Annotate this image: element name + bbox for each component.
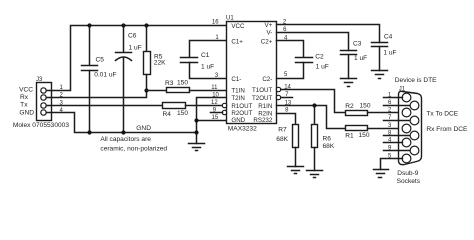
svg-text:Molex 0705530003: Molex 0705530003: [13, 122, 69, 129]
bubble R2OUT pin9: [222, 110, 226, 114]
svg-text:Sockets: Sockets: [397, 178, 421, 185]
ground symbol main: [189, 144, 205, 151]
J1 socket pin3: [402, 124, 411, 133]
capacitor C2: [277, 58, 313, 79]
wire R2IN to R7: [277, 114, 296, 125]
wire J1 pin8 stub: [384, 135, 410, 137]
J1 socket pin1: [402, 93, 411, 102]
svg-text:T1IN: T1IN: [231, 88, 244, 95]
wire Rx: J3 pin2 to T1IN node jog: [47, 91, 147, 98]
connector J3 body: [37, 83, 52, 121]
wire V+ pin2 to C4: [277, 25, 380, 43]
svg-text:All capacitors are: All capacitors are: [100, 136, 151, 143]
svg-text:C2: C2: [315, 53, 324, 60]
svg-text:C5: C5: [96, 57, 105, 64]
svg-text:150: 150: [360, 102, 371, 109]
svg-text:V-: V-: [266, 29, 272, 36]
svg-text:Device is DTE: Device is DTE: [395, 77, 437, 84]
svg-text:8: 8: [285, 107, 289, 113]
svg-text:T1OUT: T1OUT: [252, 87, 273, 94]
svg-text:16: 16: [212, 20, 219, 26]
wire J1 pin1 stub: [384, 97, 403, 99]
svg-text:R4: R4: [163, 111, 172, 118]
capacitor C1: [181, 58, 227, 79]
wire R1 to J1 pin3: [368, 128, 403, 130]
svg-text:1 uF: 1 uF: [129, 45, 142, 52]
svg-text:J3: J3: [36, 77, 43, 83]
op IC U1 MAX3232 box: [227, 22, 277, 124]
svg-text:R3: R3: [165, 80, 174, 87]
svg-text:Dsub-9: Dsub-9: [397, 170, 419, 177]
ground symbol C3: [341, 79, 357, 87]
capacitor C4: [372, 43, 388, 71]
wire GND: J3 pin4 down to ground bus: [47, 113, 197, 133]
J1 socket pin6: [410, 101, 419, 110]
resistor R6: [312, 106, 318, 171]
bubble T1OUT pin14: [276, 87, 280, 91]
wire J1 pin7 stub: [384, 120, 410, 122]
svg-text:MAX3232: MAX3232: [228, 126, 257, 133]
resistor R2: [346, 111, 368, 116]
resistor R7: [293, 125, 299, 167]
svg-text:1 uF: 1 uF: [201, 64, 214, 71]
svg-text:T2IN: T2IN: [231, 95, 244, 102]
node: C5 ground junction: [87, 130, 91, 134]
node: C6 junction on VCC rail: [121, 23, 125, 27]
node: pin15 junction: [194, 118, 198, 122]
ground symbol R6: [307, 171, 323, 178]
J1 socket pin7: [410, 116, 419, 125]
svg-text:1 uF: 1 uF: [383, 49, 396, 56]
J1 socket pin5: [402, 154, 411, 163]
svg-text:V+: V+: [265, 22, 273, 29]
wire R1IN to R1: [277, 106, 346, 129]
svg-text:150: 150: [177, 80, 188, 87]
svg-text:15: 15: [212, 115, 219, 121]
wire R2OUT unconnected stub: [211, 112, 223, 114]
svg-text:C2+: C2+: [261, 38, 273, 45]
wire R3 to U1 T1IN: [190, 90, 227, 92]
bubble R1OUT pin12: [222, 103, 226, 107]
wire J1 pin4 stub: [384, 142, 403, 144]
ground symbol R7: [288, 167, 304, 174]
wire C2+ pin4 to C2: [277, 41, 304, 57]
node: R5 junction on VCC rail: [144, 23, 148, 27]
svg-text:R2: R2: [345, 103, 354, 110]
wire T2OUT unconnected stub: [282, 97, 293, 99]
node: C6 ground junction: [121, 130, 125, 134]
node A: R5/R3/Rx junction: [144, 88, 148, 92]
svg-text:150: 150: [359, 132, 370, 139]
bubble T2OUT pin7: [276, 95, 280, 99]
svg-text:1 uF: 1 uF: [354, 55, 367, 62]
resistor R5: [144, 26, 151, 91]
connector J1 DB9 outline: [399, 91, 422, 164]
svg-text:GND: GND: [231, 117, 245, 124]
svg-text:C1+: C1+: [231, 38, 243, 45]
svg-text:C6: C6: [128, 32, 137, 39]
svg-text:R1IN: R1IN: [258, 103, 272, 110]
svg-text:C3: C3: [353, 41, 362, 48]
svg-text:Tx: Tx: [20, 101, 28, 108]
wire R2 to J1 pin2: [368, 112, 403, 114]
node: R6 junction on R1IN wire: [312, 103, 316, 107]
wire node A to R3: [147, 90, 167, 92]
svg-text:0.01 uF: 0.01 uF: [94, 72, 116, 79]
wire T1OUT to R2: [282, 90, 346, 113]
svg-text:GND: GND: [136, 125, 151, 132]
resistor R4: [163, 103, 186, 109]
svg-text:11: 11: [211, 85, 218, 91]
wire V- pin6 to C3: [277, 33, 349, 51]
svg-text:C2-: C2-: [262, 76, 272, 83]
capacitor C5: [82, 26, 98, 133]
svg-text:10: 10: [212, 93, 219, 99]
capacitor C6 (flat + curved plate): [116, 26, 132, 133]
wire VCC: J3 pin1 up to VCC rail to U1 pin16: [47, 26, 227, 91]
svg-text:Rx: Rx: [20, 94, 29, 101]
svg-text:22K: 22K: [154, 60, 166, 67]
svg-text:Rx From DCE: Rx From DCE: [426, 126, 468, 133]
svg-text:R1: R1: [345, 133, 354, 140]
svg-text:VCC: VCC: [231, 23, 245, 30]
wire T2IN to ground bus: [197, 98, 227, 144]
J1 socket pin2: [402, 108, 411, 117]
node: C5 junction on VCC rail: [87, 23, 91, 27]
ground symbol C4: [372, 71, 388, 79]
svg-text:ceramic, non-polarized: ceramic, non-polarized: [100, 146, 167, 153]
svg-text:68K: 68K: [323, 143, 335, 150]
svg-text:R6: R6: [323, 136, 332, 143]
svg-text:C1: C1: [201, 52, 210, 59]
svg-text:5: 5: [284, 72, 288, 78]
resistor R3: [167, 88, 190, 93]
wire R4 to U1 R1OUT bubble: [186, 105, 223, 107]
svg-text:C1-: C1-: [231, 76, 241, 83]
svg-text:12: 12: [211, 100, 218, 106]
svg-text:R7: R7: [278, 127, 287, 134]
wire J1 pin6 stub: [384, 105, 410, 107]
node: ground bus junction: [194, 130, 198, 134]
svg-text:R2OUT: R2OUT: [231, 110, 252, 117]
svg-text:RS232: RS232: [253, 117, 272, 124]
svg-text:68K: 68K: [276, 136, 288, 143]
wire J1 pin5 to ground: [381, 159, 403, 170]
svg-text:Tx To DCE: Tx To DCE: [426, 111, 458, 118]
resistor R1: [346, 126, 368, 131]
wire U1 GND pin15: [197, 120, 227, 122]
wire Tx: J3 pin3 to R4: [47, 105, 163, 107]
svg-text:U1: U1: [226, 15, 234, 21]
svg-text:VCC: VCC: [19, 86, 33, 93]
ground symbol J1: [374, 170, 389, 178]
svg-text:J1: J1: [399, 86, 406, 92]
wire J1 pin9 stub: [384, 150, 410, 152]
capacitor C3: [341, 51, 357, 79]
svg-text:150: 150: [177, 110, 188, 117]
svg-text:GND: GND: [19, 110, 34, 117]
J1 socket pin4: [402, 138, 411, 147]
wire U1 C1+ to C1: [190, 41, 227, 57]
svg-text:1 uF: 1 uF: [316, 64, 329, 71]
svg-text:C4: C4: [384, 34, 393, 41]
svg-text:T2OUT: T2OUT: [252, 95, 273, 102]
J1 socket pin9: [410, 146, 419, 155]
J1 socket pin8: [410, 131, 419, 140]
